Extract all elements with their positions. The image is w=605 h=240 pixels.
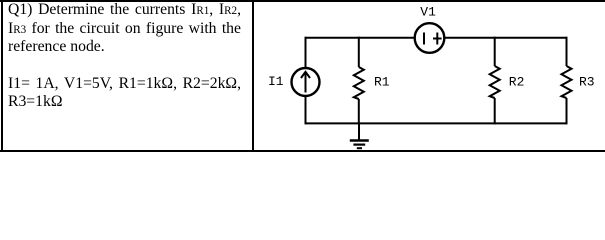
wire: top rail left (I1 node to V1 minus lead) (306, 37, 415, 39)
wire: I1 top lead (305, 37, 307, 68)
table border top (0, 0, 605, 2)
table cell divider (252, 0, 254, 152)
svg-text:R3: R3 (579, 75, 595, 90)
problem text line 5 (8, 75, 241, 93)
wire: R2 bottom lead (494, 98, 496, 124)
wire: R3 top lead (566, 37, 568, 66)
problem text line 3 (8, 38, 241, 56)
resistor R1 (354, 67, 364, 99)
resistor R2 (490, 66, 500, 98)
table border bottom (0, 150, 605, 152)
ground (350, 123, 369, 148)
wire: I1 bottom lead (305, 97, 307, 125)
voltage source V1 (415, 23, 445, 53)
wire: top rail right (V1 plus lead to R3 corner) (445, 37, 567, 39)
svg-text:I1: I1 (268, 74, 284, 89)
current source I1 (292, 68, 320, 96)
problem text line 2 (8, 20, 241, 39)
resistor R3 (562, 66, 572, 98)
wire: R3 bottom lead (566, 98, 568, 124)
svg-text:V1: V1 (420, 4, 436, 19)
problem text line 6 (8, 93, 241, 111)
wire: R1 top lead (358, 37, 360, 67)
table border left (1, 0, 3, 152)
wire: bottom rail (reference node) (306, 122, 567, 124)
svg-text:R1: R1 (374, 75, 390, 90)
wire: R1 bottom lead (358, 99, 360, 124)
svg-text:R2: R2 (509, 75, 525, 90)
wire: R2 top lead (494, 37, 496, 66)
problem text line 1 (8, 1, 241, 20)
